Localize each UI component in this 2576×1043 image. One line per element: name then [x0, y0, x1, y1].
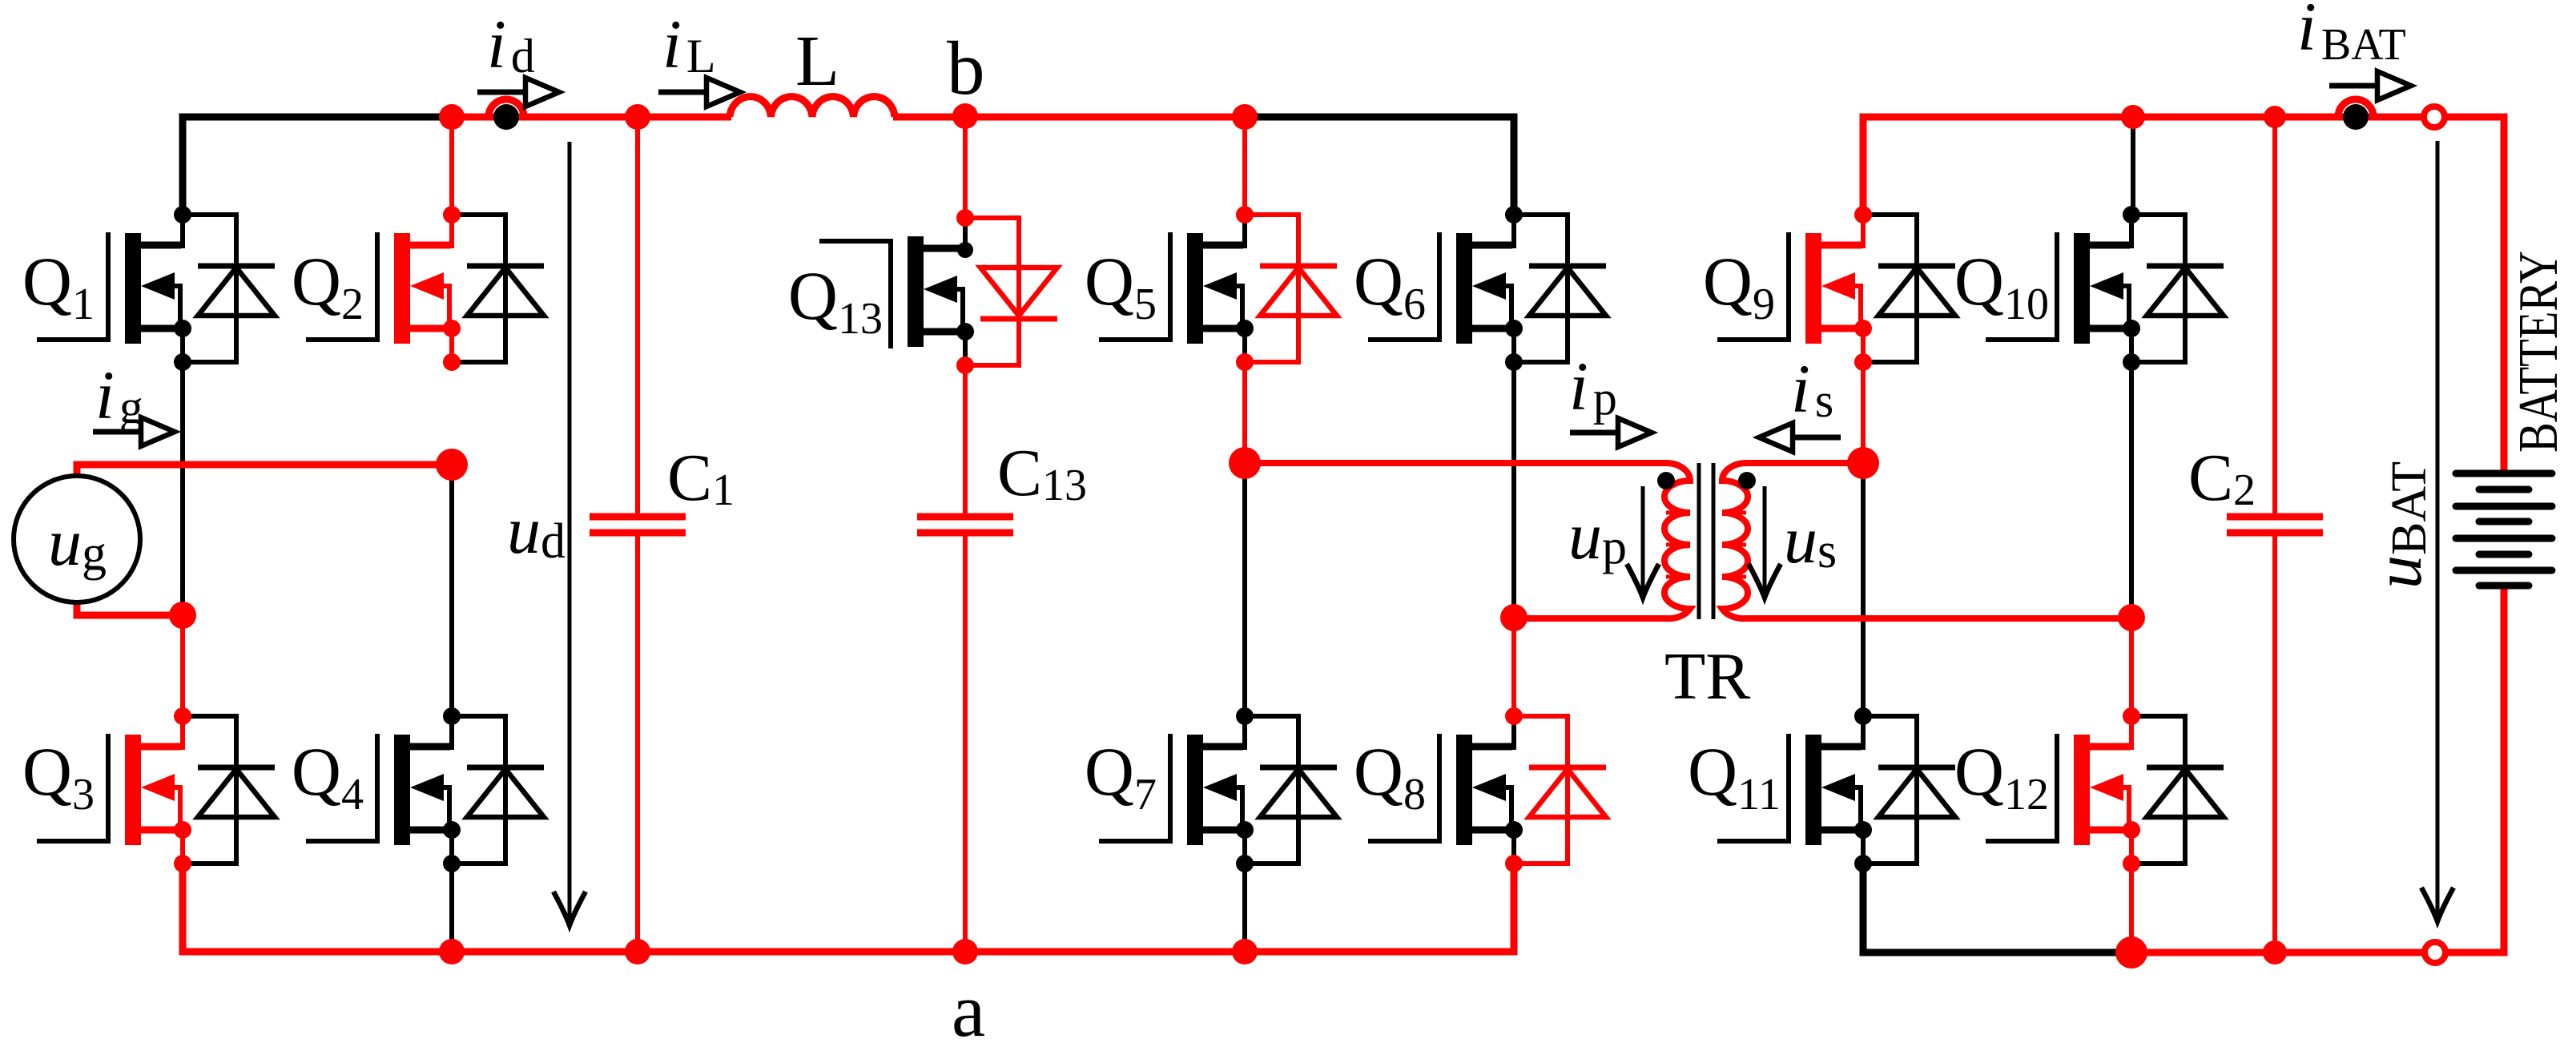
- wire top rail red segment (inductor to Q5 leg): [893, 114, 1245, 121]
- svg-text:Q5: Q5: [1085, 243, 1157, 329]
- node junction top rail C1 leg: [625, 104, 650, 130]
- node junction TR primary top: [1229, 447, 1261, 479]
- svg-text:uBAT: uBAT: [2361, 461, 2437, 589]
- transistor Q13: [819, 209, 1057, 374]
- svg-text:L: L: [795, 22, 839, 101]
- transformer TR primary winding ticks: [1666, 513, 1688, 577]
- node junction top rail Q10 leg: [2121, 105, 2145, 129]
- transformer TR core: [1697, 463, 1701, 619]
- transistor Q1: [37, 206, 275, 371]
- current sensor dot id: [493, 104, 519, 130]
- wire top rail right (Q9 leg to battery+): [1863, 117, 2504, 473]
- node junction bottom rail C13 leg: [952, 939, 978, 964]
- wire bottom rail left (Q3 leg to Q8 leg): [183, 862, 1514, 952]
- wire C1 leg lower: [635, 533, 640, 952]
- node junction bottom rail Q4 leg: [439, 939, 465, 964]
- voltage arrow ubat: [2436, 141, 2440, 915]
- transistor Q12: [1986, 707, 2224, 872]
- svg-text:Q11: Q11: [1688, 733, 1781, 819]
- current sensor dot ibat: [2343, 104, 2369, 130]
- wire top rail red segment (Q2 leg to inductor): [452, 114, 731, 121]
- node junction ug- Q1 leg midpoint: [169, 602, 196, 629]
- svg-text:id: id: [487, 6, 535, 83]
- wire leg10 Q10 drain from top rail: [2131, 117, 2135, 215]
- wire sensor hop over id dot: [489, 99, 524, 117]
- svg-text:Q8: Q8: [1354, 733, 1426, 819]
- wire leg12 TR secondary bottom junction to Q12 drain: [2129, 618, 2134, 716]
- svg-text:a: a: [952, 968, 985, 1043]
- transistor Q4: [306, 707, 544, 872]
- current arrow id: [477, 90, 527, 95]
- wire leg2 Q2 drain from top rail: [449, 117, 454, 215]
- wire top rail segment (Q5 leg to Q6 drain): [1245, 117, 1514, 215]
- svg-text:BATTERY: BATTERY: [2508, 251, 2570, 453]
- transistor Q8: [1368, 707, 1606, 872]
- svg-text:Q3: Q3: [22, 733, 95, 819]
- node junction ug+ Q2 leg midpoint: [436, 449, 468, 481]
- wire leg9 TR secondary top junction to Q11 drain: [1861, 463, 1866, 716]
- wire leg1 Q1 source to ug- junction: [180, 362, 185, 615]
- node junction top rail Q2 leg: [439, 104, 465, 130]
- wire leg9 Q11 source to bottom rail corner: [1863, 864, 2131, 952]
- svg-text:is: is: [1791, 350, 1833, 427]
- svg-text:ig: ig: [95, 356, 143, 433]
- wire C2 leg upper: [2272, 117, 2277, 517]
- wire node b to Q13 drain: [963, 117, 968, 218]
- voltage arrow us: [1763, 486, 1767, 591]
- svg-text:iBAT: iBAT: [2297, 0, 2406, 70]
- svg-text:Q9: Q9: [1703, 243, 1775, 329]
- transformer TR primary winding: [1245, 463, 1690, 618]
- transformer TR secondary polarity dot: [1738, 472, 1756, 489]
- wire leg12 Q12 source to bottom rail: [2129, 864, 2134, 952]
- node junction TR primary bottom: [1500, 604, 1527, 631]
- transistor Q9: [1717, 206, 1955, 371]
- voltage arrow ud: [568, 142, 572, 919]
- wire leg6 TR primary bottom junction to Q8 drain: [1511, 618, 1516, 716]
- wire leg9 Q9 full red leg: [1861, 362, 1866, 463]
- transformer TR secondary winding ticks: [1724, 513, 1746, 577]
- current arrow ip: [1570, 430, 1620, 436]
- transistor Q6: [1368, 206, 1606, 371]
- wire leg5 Q5 lower dot to TR primary top junction: [1242, 365, 1247, 463]
- svg-text:Q12: Q12: [1954, 733, 2049, 819]
- node junction bottom rail Q12 leg: [2115, 936, 2147, 968]
- wire leg2 Q2/Q4 midpoint to Q4 drain: [449, 465, 454, 716]
- node junction TR secondary top: [1847, 447, 1879, 479]
- svg-text:us: us: [1784, 503, 1837, 578]
- wire leg5 Q7 source to bottom rail: [1242, 864, 1247, 952]
- battery cells: [2456, 473, 2552, 586]
- voltage arrow up: [1641, 486, 1645, 591]
- wire C13 to bottom rail: [963, 533, 968, 952]
- svg-text:ug: ug: [48, 505, 107, 581]
- current arrow ibat: [2329, 83, 2379, 89]
- wire leg6 Q6 source to TR primary bottom junction: [1511, 362, 1516, 618]
- svg-text:C2: C2: [2188, 441, 2256, 515]
- transistor Q7: [1099, 707, 1337, 872]
- wire sensor hop over ibat dot: [2338, 99, 2373, 117]
- svg-text:iL: iL: [662, 6, 716, 83]
- svg-text:TR: TR: [1664, 639, 1750, 714]
- wire top rail left segment (Q1 drain to Q2 leg): [183, 117, 452, 216]
- wire bottom rail right red (Q12 leg to battery-): [2131, 586, 2504, 952]
- node junction top rail C2 leg: [2264, 106, 2286, 128]
- svg-text:Q4: Q4: [292, 733, 364, 819]
- wire leg6 Q8 source to bottom rail: [1511, 864, 1516, 952]
- node junction TR secondary bottom: [2118, 604, 2145, 631]
- svg-text:Q6: Q6: [1354, 243, 1426, 329]
- svg-text:Q13: Q13: [788, 257, 883, 344]
- transistor Q3: [37, 707, 275, 872]
- wire ug- to Q1/Q3 midpoint: [77, 604, 183, 615]
- inductor L: [730, 97, 895, 117]
- svg-text:C13: C13: [997, 436, 1087, 510]
- svg-text:up: up: [1568, 499, 1627, 574]
- current arrow is: [1791, 435, 1841, 441]
- capacitor C2: [2227, 513, 2323, 521]
- transformer TR secondary winding: [1722, 463, 2131, 618]
- transistor Q5: [1099, 206, 1337, 371]
- wire leg5 TR junction to Q7 drain: [1242, 463, 1247, 716]
- wire C2 leg lower: [2272, 533, 2277, 952]
- battery negative terminal circle: [2425, 942, 2445, 963]
- svg-text:Q7: Q7: [1085, 733, 1157, 819]
- current arrow ig: [93, 429, 143, 435]
- svg-text:Q10: Q10: [1954, 243, 2049, 329]
- wire C1 leg upper: [635, 117, 640, 517]
- node b junction: [952, 103, 978, 129]
- node junction bottom rail C2 leg: [2263, 940, 2287, 964]
- transformer TR primary polarity dot: [1657, 472, 1675, 489]
- node junction top rail Q5 leg: [1232, 104, 1258, 130]
- wire leg1 ug- junction to Q3 drain: [180, 615, 185, 716]
- capacitor C13: [917, 513, 1013, 521]
- transistor Q10: [1986, 206, 2224, 371]
- source ug circle: [14, 476, 140, 602]
- capacitor C1: [590, 513, 686, 521]
- wire Q13 source to C13: [963, 365, 968, 517]
- wire leg5 Q5 drain from top rail: [1242, 117, 1247, 217]
- node junction bottom rail Q7 leg: [1232, 939, 1258, 964]
- svg-text:b: b: [947, 26, 985, 111]
- transistor Q11: [1717, 707, 1955, 872]
- svg-text:Q2: Q2: [292, 243, 364, 329]
- node junction bottom rail C1 leg: [625, 939, 650, 964]
- svg-text:ip: ip: [1569, 348, 1617, 425]
- wire leg2 Q4 source to bottom rail: [449, 864, 454, 952]
- svg-text:Q1: Q1: [22, 243, 95, 329]
- battery positive terminal circle: [2424, 107, 2445, 127]
- svg-text:ud: ud: [507, 493, 566, 569]
- svg-text:C1: C1: [667, 441, 735, 515]
- wire leg10 Q10 source to TR secondary bottom junction: [2129, 362, 2134, 618]
- current arrow iL: [658, 90, 708, 95]
- transistor Q2: [306, 206, 544, 371]
- wire ug+ to Q2/Q4 midpoint: [77, 465, 452, 474]
